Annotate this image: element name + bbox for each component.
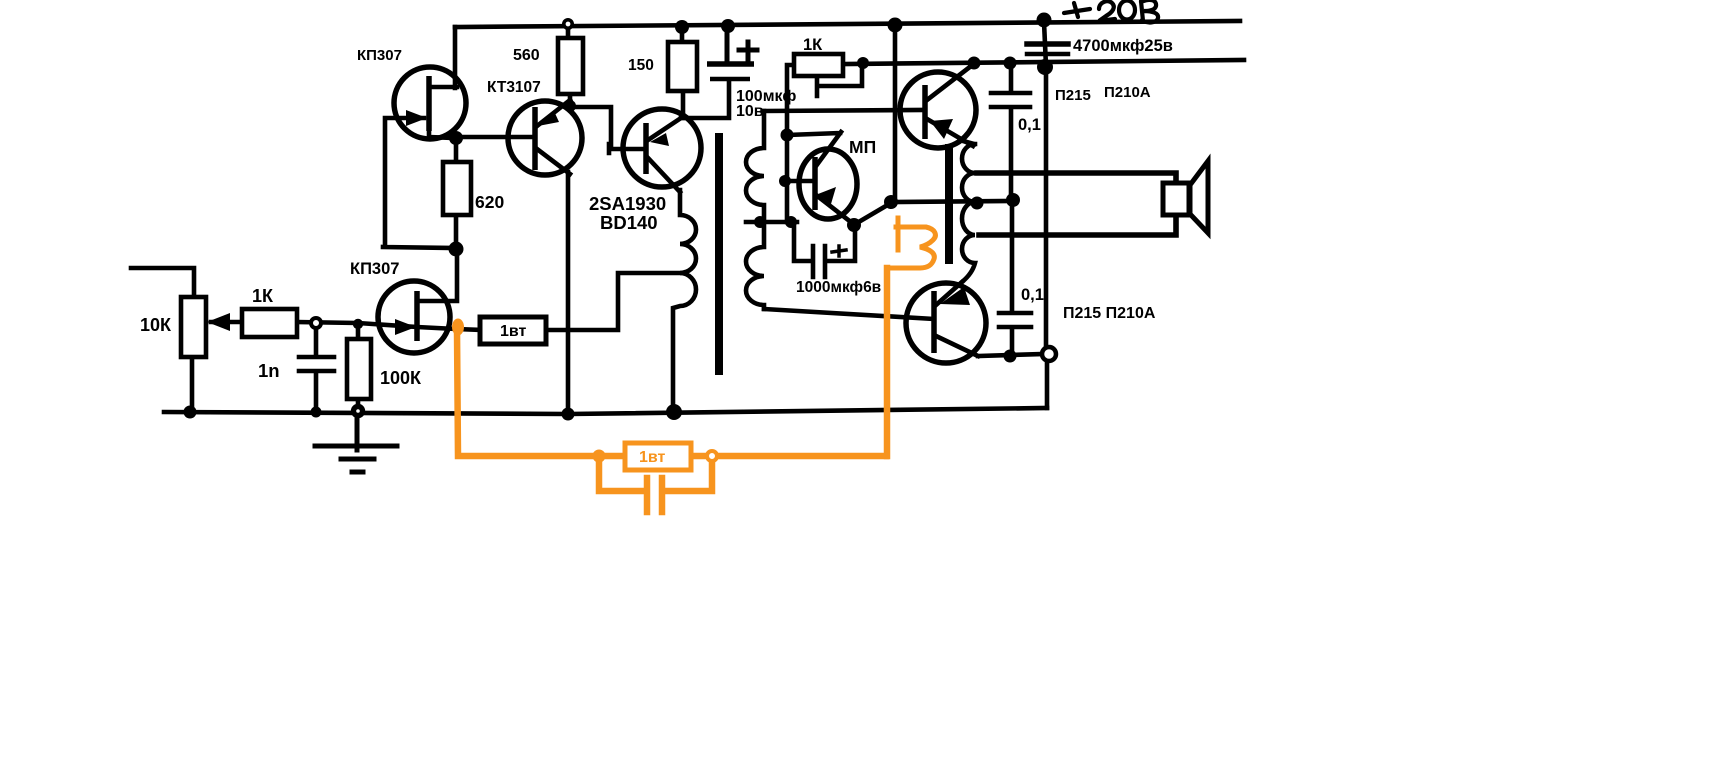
svg-text:1К: 1К <box>252 286 274 306</box>
svg-text:1000мкф6в: 1000мкф6в <box>796 279 881 296</box>
svg-text:КП307: КП307 <box>357 47 402 64</box>
svg-text:0,1: 0,1 <box>1021 286 1044 304</box>
svg-text:П210А: П210А <box>1104 84 1151 101</box>
svg-text:КП307: КП307 <box>350 260 399 278</box>
svg-text:560: 560 <box>513 47 540 64</box>
svg-text:BD140: BD140 <box>600 212 658 233</box>
svg-text:1вт: 1вт <box>639 449 666 466</box>
svg-text:100К: 100К <box>380 368 422 388</box>
svg-text:1К: 1К <box>803 36 823 54</box>
svg-text:П215 П210А: П215 П210А <box>1063 305 1156 322</box>
svg-text:0,1: 0,1 <box>1018 116 1041 134</box>
svg-text:620: 620 <box>475 192 504 212</box>
svg-text:4700мкф25в: 4700мкф25в <box>1073 37 1173 55</box>
svg-text:КТ3107: КТ3107 <box>487 79 541 96</box>
svg-text:10в: 10в <box>736 103 764 120</box>
svg-text:П215: П215 <box>1055 87 1091 104</box>
svg-text:2SA1930: 2SA1930 <box>589 193 666 214</box>
svg-text:1вт: 1вт <box>500 323 527 340</box>
svg-text:1n: 1n <box>258 360 280 381</box>
svg-text:150: 150 <box>628 57 654 74</box>
svg-text:МП: МП <box>849 137 876 157</box>
svg-text:10К: 10К <box>140 315 172 335</box>
